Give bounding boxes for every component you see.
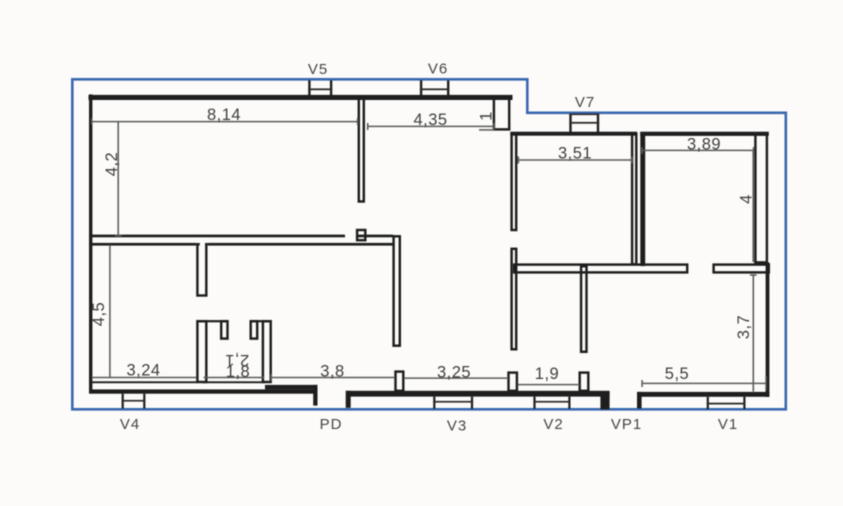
wall: left exterior wall xyxy=(89,94,92,392)
dimension line 1,8 xyxy=(204,377,265,379)
dimension line 3,24 xyxy=(92,377,197,379)
dimension line 1 (stub) xyxy=(479,129,495,131)
wall: 1,8 room floor line xyxy=(202,381,265,383)
wall: bottom right band xyxy=(637,392,769,397)
dimension line 5,5 xyxy=(642,376,767,390)
window V5 xyxy=(308,81,332,96)
svg-text:V4: V4 xyxy=(120,416,140,433)
svg-text:V1: V1 xyxy=(718,416,738,433)
wall: corridor east wall upper segment xyxy=(512,134,517,230)
window V7 xyxy=(569,114,599,134)
wall: 1,8 room top stroke right xyxy=(251,320,271,322)
svg-text:VP1: VP1 xyxy=(611,416,642,433)
dimension line 3,89 xyxy=(642,147,755,154)
svg-text:4,35: 4,35 xyxy=(413,111,447,129)
wall: living room bottom (upper stroke, right part) xyxy=(356,235,393,238)
window V4 xyxy=(122,394,146,409)
junction: open tube at 3,24 room right wall T xyxy=(200,238,205,246)
svg-text:PD: PD xyxy=(320,416,343,433)
svg-text:V6: V6 xyxy=(428,61,448,78)
window V2 xyxy=(533,397,570,409)
wall: divider below corridor bar xyxy=(581,266,586,352)
wall: top exterior wall xyxy=(89,95,513,100)
wall: bottom stub at 3,25/1,9 xyxy=(509,373,517,391)
wall: corridor south bar left xyxy=(514,265,687,273)
wall: living room bottom (upper stroke, left part) xyxy=(89,235,345,238)
wall: middle wall lower stroke right xyxy=(208,243,393,246)
svg-text:3,25: 3,25 xyxy=(437,364,471,382)
dimension line 3,8 xyxy=(271,374,396,381)
wall: 1,8 room left wall pair xyxy=(197,321,206,382)
wall: bottom middle band xyxy=(346,391,610,397)
wall: 1,8 room top stroke left xyxy=(197,320,227,322)
wall: 3,89 room left xyxy=(640,134,645,267)
svg-text:3,7: 3,7 xyxy=(735,315,753,339)
wall: middle wall lower stroke left xyxy=(89,243,196,246)
wall: bottom stub at 1,9/VP1 xyxy=(580,373,589,391)
wall: east exterior lower xyxy=(766,263,770,397)
svg-text:V2: V2 xyxy=(543,416,563,433)
dimension line 4 (vertical) xyxy=(752,150,754,262)
svg-text:1,9: 1,9 xyxy=(535,365,559,383)
dimension line 8,14 xyxy=(92,118,359,125)
dimension line 1,9 xyxy=(518,384,580,386)
wall: 1,8 room door left jamb xyxy=(221,321,227,338)
wall: 1,8 room door right jamb xyxy=(251,321,258,338)
svg-text:3,8: 3,8 xyxy=(320,363,344,381)
wall: VP1 right jamb xyxy=(637,392,642,409)
svg-text:8,14: 8,14 xyxy=(207,106,241,124)
wall: 3,24 room right wall upper pair xyxy=(197,244,206,295)
wall: VP1 left block xyxy=(600,392,609,409)
svg-text:4: 4 xyxy=(738,194,756,204)
svg-text:3,89: 3,89 xyxy=(687,136,721,154)
window V6 xyxy=(420,81,450,96)
svg-text:1: 1 xyxy=(478,111,496,121)
wall: bottom left band xyxy=(89,389,318,393)
svg-text:2,1: 2,1 xyxy=(225,351,249,369)
wall: 3,89 room top xyxy=(640,132,769,136)
svg-text:V7: V7 xyxy=(575,94,595,111)
dimension line 4,2 xyxy=(115,122,122,236)
window V3 xyxy=(433,397,473,409)
wall: corridor south bar right xyxy=(714,265,769,273)
dimension line 4,5 (vertical) xyxy=(109,245,111,378)
svg-text:V5: V5 xyxy=(308,61,328,78)
dimension line 3,51 xyxy=(518,157,633,164)
wall: stub right of 4,35 room xyxy=(494,97,509,129)
wall: divider between 8,14 room and 4,35 room xyxy=(359,99,364,202)
wall: bottom segment right of 1,8 room xyxy=(265,385,318,390)
wall: PD door left cap xyxy=(313,385,317,406)
wall: 3,89 room right (double with exterior) xyxy=(755,134,767,262)
wall: 3,51 room top xyxy=(510,132,637,136)
svg-text:V3: V3 xyxy=(447,418,467,435)
svg-text:3,24: 3,24 xyxy=(126,362,160,380)
dimension line 3,7 (vertical) xyxy=(750,275,757,392)
wall: 3,24 room floor line xyxy=(89,381,197,383)
wall: corridor west wall xyxy=(394,236,400,345)
svg-text:4,2: 4,2 xyxy=(103,152,121,176)
wall: stub below divider opening xyxy=(357,230,365,240)
wall: corridor east wall lower segment xyxy=(512,249,517,349)
svg-text:3,51: 3,51 xyxy=(558,145,592,163)
wall: PD door right jamb xyxy=(346,391,351,408)
blue property boundary xyxy=(72,79,786,409)
wall: bottom stub at 3,8/3,25 xyxy=(396,372,404,391)
wall: 3,51 room right xyxy=(632,134,636,265)
dimension line 3,25 xyxy=(404,377,509,379)
dimension line 4,35 xyxy=(367,123,494,130)
window V1 xyxy=(707,397,746,409)
svg-text:4,5: 4,5 xyxy=(90,302,108,326)
wall: 1,8 room right wall pair xyxy=(263,321,271,382)
svg-text:5,5: 5,5 xyxy=(665,365,689,383)
